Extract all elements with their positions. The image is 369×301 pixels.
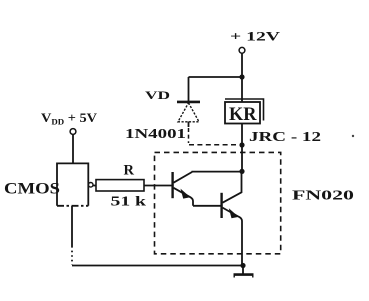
node ground junction (dot) [240,263,245,268]
ground [242,266,244,274]
node collector junction (dot) [239,169,244,174]
dashed module box FN020 [155,152,281,253]
inverter output bubble [88,183,93,188]
wire Q1 emitter to Q2 base [193,205,221,207]
wire Vdd terminal to CMOS box [72,135,74,164]
wire junction to diode branch [189,76,243,78]
wire from +12V terminal down [241,53,243,76]
svg-text:CMOS: CMOS [4,181,60,198]
diode VD cathode bar [177,101,200,104]
wire CMOS bottom down [71,206,73,246]
wire bubble to resistor [93,185,96,187]
node junction at top (dot) [239,74,244,79]
wire return line to CMOS [72,265,243,267]
svg-text:R: R [124,163,135,179]
wire KR bottom to collector node [241,124,243,171]
diode VD triangle [178,103,199,122]
svg-text:1N4001: 1N4001 [125,126,186,141]
svg-text:FN020: FN020 [292,189,354,204]
wire resistor to Q1 base [144,185,172,187]
svg-text:JRC - 12: JRC - 12 [249,130,321,145]
transistor Q2 emitter with arrow [223,208,243,264]
wire diode anode to main rail (dashed) [189,144,238,146]
wire down to diode cathode [188,77,190,101]
transistor Q1 base bar [171,172,173,198]
terminal +12V [239,47,245,53]
wire node to KR top [241,77,243,102]
svg-text:KR: KR [229,104,257,125]
transistor Q2 base bar [220,193,222,218]
noise speck [352,135,354,137]
transistor Q2 collector [223,173,242,203]
transistor Q1 emitter with arrow [174,188,194,206]
svg-text:51 k: 51 k [111,195,147,210]
resistor R body [96,180,144,191]
svg-text:+ 12V: + 12V [230,29,281,44]
node diode/relay junction (dot) [239,142,244,147]
terminal Vdd (circle) [70,129,76,135]
transistor Q1 collector [174,172,193,183]
wire diode anode down (dashed) [188,122,190,128]
svg-text:VD: VD [145,88,170,102]
relay coil KR box (3D double edge) [225,102,260,124]
wire Q1 collector to node [192,171,241,173]
CMOS gate box [57,163,88,205]
svg-text:VDD + 5V: VDD + 5V [41,110,98,127]
